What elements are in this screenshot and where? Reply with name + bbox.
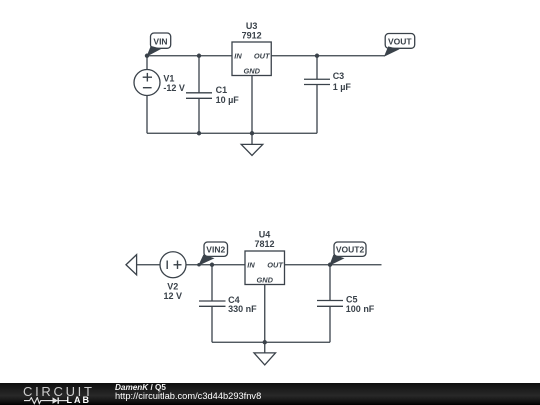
svg-text:IN: IN bbox=[247, 261, 255, 270]
svg-text:C3: C3 bbox=[333, 71, 345, 81]
svg-text:V2: V2 bbox=[167, 281, 178, 291]
svg-text:-12 V: -12 V bbox=[163, 83, 185, 93]
svg-text:V1: V1 bbox=[163, 74, 174, 84]
svg-text:C1: C1 bbox=[216, 85, 228, 95]
svg-text:VIN2: VIN2 bbox=[206, 244, 225, 254]
svg-text:U4: U4 bbox=[259, 230, 271, 240]
svg-text:12 V: 12 V bbox=[164, 291, 183, 301]
svg-text:7912: 7912 bbox=[242, 30, 262, 40]
svg-text:OUT: OUT bbox=[267, 261, 284, 270]
svg-text:GND: GND bbox=[257, 275, 274, 284]
svg-text:IN: IN bbox=[234, 52, 242, 61]
svg-text:VOUT: VOUT bbox=[388, 37, 412, 47]
svg-text:100 nF: 100 nF bbox=[346, 304, 375, 314]
svg-text:1 µF: 1 µF bbox=[333, 82, 352, 92]
svg-text:OUT: OUT bbox=[254, 52, 271, 61]
svg-text:330 nF: 330 nF bbox=[228, 304, 257, 314]
svg-text:7812: 7812 bbox=[254, 239, 274, 249]
svg-text:10 µF: 10 µF bbox=[216, 95, 240, 105]
svg-text:GND: GND bbox=[244, 66, 261, 75]
svg-text:VOUT2: VOUT2 bbox=[336, 244, 365, 254]
svg-text:VIN: VIN bbox=[153, 36, 167, 46]
